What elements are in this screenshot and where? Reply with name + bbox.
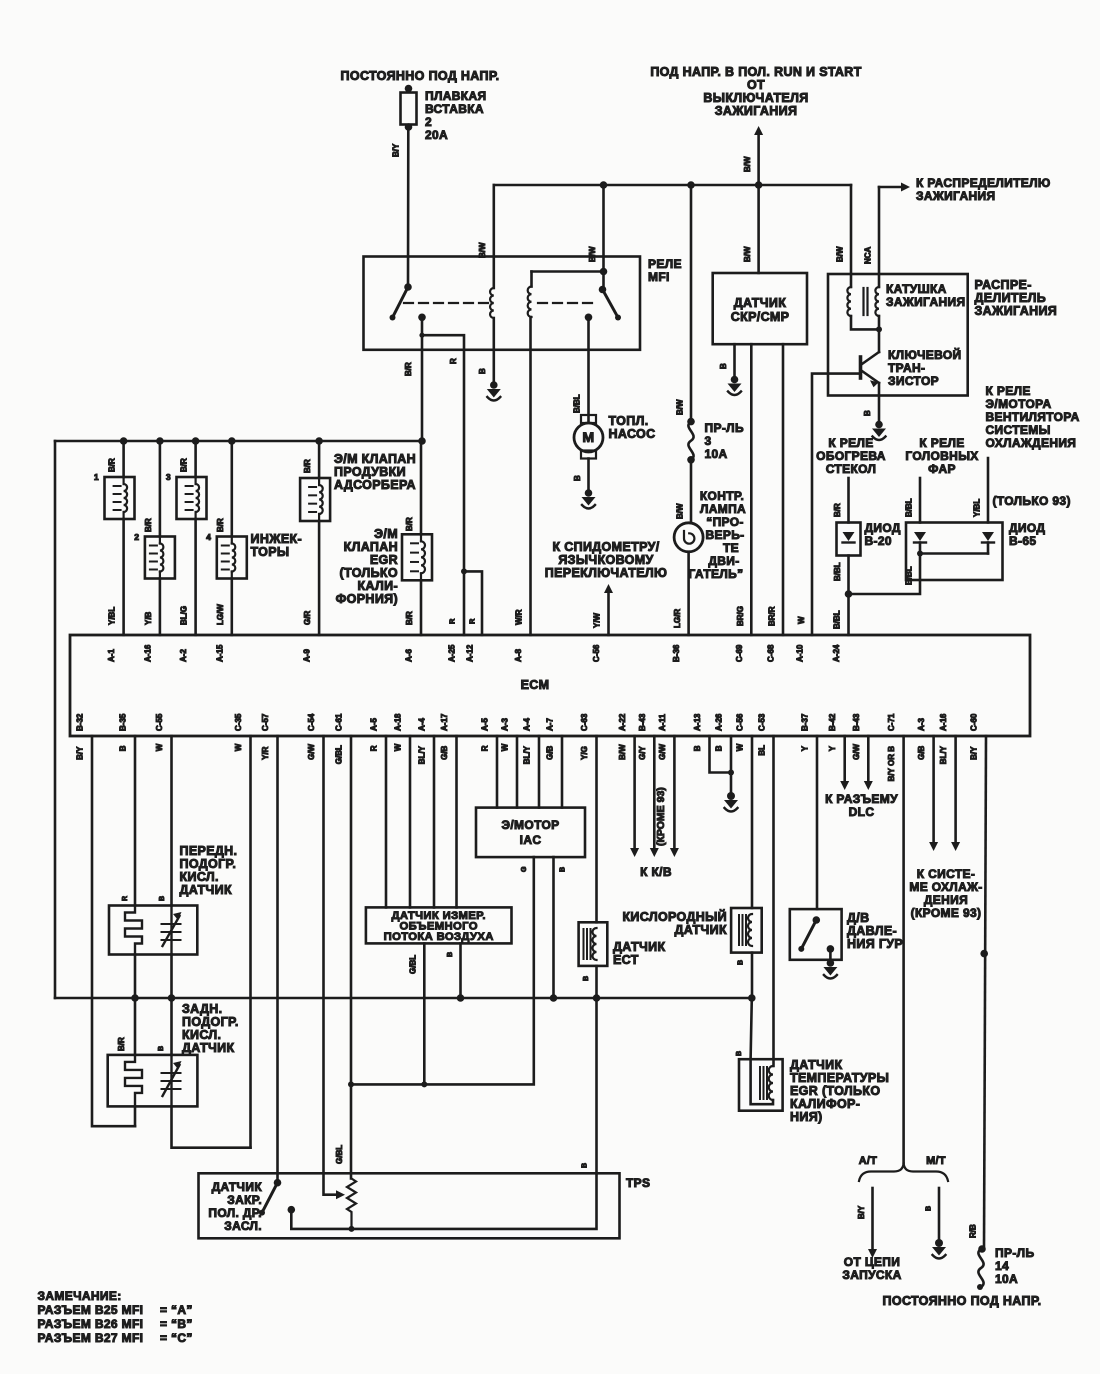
svg-text:A-17: A-17: [440, 713, 449, 731]
svg-text:B/R: B/R: [404, 362, 413, 376]
relay mechanical link (dashed): [404, 302, 488, 304]
svg-text:ОТ: ОТ: [747, 78, 765, 92]
wire bus to TPS return: [595, 998, 598, 1173]
svg-text:A-1: A-1: [107, 649, 116, 662]
injector 4: [231, 441, 234, 537]
wire B/Y to start circuit (ОТ ЦЕПИ ЗАПУСКА): [871, 1188, 874, 1249]
svg-text:ВСТАВКА: ВСТАВКА: [425, 102, 484, 116]
svg-text:A-25: A-25: [448, 644, 457, 662]
wire coil1 to ground: [492, 318, 495, 382]
svg-text:ДАВЛЕ-: ДАВЛЕ-: [847, 924, 897, 938]
svg-text:Y/B: Y/B: [144, 611, 153, 625]
svg-text:ФОРНИЯ): ФОРНИЯ): [336, 592, 398, 606]
svg-text:B/BL: B/BL: [905, 498, 914, 517]
svg-text:A-16: A-16: [939, 713, 948, 731]
svg-text:ТРАН-: ТРАН-: [888, 361, 925, 375]
svg-text:B-35: B-35: [119, 713, 128, 731]
svg-text:A-3: A-3: [501, 718, 510, 731]
svg-text:ОБОГРЕВА: ОБОГРЕВА: [816, 449, 886, 463]
svg-text:ПОТОКА ВОЗДУХА: ПОТОКА ВОЗДУХА: [384, 931, 494, 943]
svg-text:B/BL: B/BL: [905, 566, 914, 585]
svg-text:К РАСПРЕДЕЛИТЕЛЮ: К РАСПРЕДЕЛИТЕЛЮ: [916, 176, 1051, 190]
svg-text:К СПИДОМЕТРУ/: К СПИДОМЕТРУ/: [552, 540, 659, 554]
svg-text:ТЕМПЕРАТУРЫ: ТЕМПЕРАТУРЫ: [790, 1071, 889, 1085]
svg-text:B: B: [719, 363, 728, 369]
wire transistor emitter to ground: [878, 383, 881, 421]
svg-text:ЗАЖИГАНИЯ: ЗАЖИГАНИЯ: [886, 295, 965, 309]
injector 1: [122, 441, 125, 477]
svg-text:BR/R: BR/R: [768, 606, 777, 626]
svg-text:W: W: [797, 616, 806, 624]
svg-text:C-69: C-69: [735, 644, 744, 662]
node bus/lamp-branch: [687, 181, 695, 189]
check engine lamp (КОНТР. ЛАМПА): [674, 523, 703, 552]
svg-text:B/Y OR B: B/Y OR B: [887, 746, 896, 782]
injector 3: [194, 441, 197, 477]
svg-text:3: 3: [705, 434, 712, 448]
svg-text:B: B: [863, 410, 872, 416]
svg-text:Y/W: Y/W: [593, 612, 602, 628]
svg-text:“ПРО-: “ПРО-: [706, 515, 744, 529]
svg-text:ДИОД: ДИОД: [1009, 521, 1045, 535]
diode B-65 (dual): [906, 523, 1003, 581]
svg-text:К РЕЛЕ: К РЕЛЕ: [828, 436, 873, 450]
svg-text:NCA: NCA: [864, 246, 873, 264]
svg-text:ДЕЛИТЕЛЬ: ДЕЛИТЕЛЬ: [975, 291, 1047, 305]
svg-text:(ТОЛЬКО: (ТОЛЬКО: [340, 566, 398, 580]
svg-text:К К/В: К К/В: [640, 865, 672, 879]
fuse 'ПЛАВКАЯ ВСТАВКА 2 20A' (fusible link 2): [405, 85, 413, 93]
svg-text:3: 3: [166, 472, 171, 482]
svg-text:ДАТЧИК: ДАТЧИК: [613, 940, 665, 954]
svg-text:BL/G: BL/G: [180, 606, 189, 625]
wire up-arrow to ignition switch: [757, 134, 760, 185]
svg-text:B/W: B/W: [618, 744, 627, 760]
svg-text:B: B: [159, 896, 166, 901]
svg-text:B-43: B-43: [638, 713, 647, 731]
svg-text:B/R: B/R: [216, 518, 225, 532]
svg-text:Э/М КЛАПАН: Э/М КЛАПАН: [334, 452, 416, 466]
svg-text:ПЕРЕДН.: ПЕРЕДН.: [180, 844, 238, 858]
svg-text:2: 2: [425, 115, 432, 129]
transistor Q1 (КЛЮЧЕВОЙ ТРАНЗИСТОР): [878, 329, 881, 352]
svg-text:A-12: A-12: [466, 644, 475, 662]
wire B/Y fuse to relay switch 1: [407, 127, 410, 287]
wire W/R coil2 to ECM pin A-8: [529, 317, 532, 635]
svg-text:ТЕ: ТЕ: [723, 541, 739, 555]
wire LG/W injector4 to ECM A-15: [231, 579, 234, 636]
svg-text:W: W: [501, 743, 510, 751]
wire R branch to ECM A-25/A-12: [422, 335, 464, 571]
svg-text:20А: 20А: [425, 128, 448, 142]
svg-text:М/Т: М/Т: [926, 1155, 946, 1167]
svg-text:C-53: C-53: [758, 713, 767, 731]
svg-text:Э/М: Э/М: [374, 527, 398, 541]
wire rear O2 sensor to ECM C-35: [172, 1106, 251, 1147]
svg-text:НАСОС: НАСОС: [609, 427, 656, 441]
svg-text:G/B: G/B: [917, 745, 926, 759]
svg-text:ЗАМЕЧАНИЕ:: ЗАМЕЧАНИЕ:: [38, 1289, 122, 1303]
svg-text:EGR (ТОЛЬКО: EGR (ТОЛЬКО: [790, 1084, 880, 1098]
wire Y/BL to diode B-65 right: [987, 458, 990, 523]
svg-text:РАСПРЕ-: РАСПРЕ-: [975, 278, 1032, 292]
svg-text:(КРОМЕ 93): (КРОМЕ 93): [911, 906, 982, 920]
node pot/rail junction: [349, 1226, 355, 1232]
svg-text:R: R: [481, 745, 490, 751]
wire W ECM C-56 through O2 sensor: [751, 736, 754, 908]
svg-text:К РЕЛЕ: К РЕЛЕ: [919, 436, 964, 450]
wire Y/G ECM C-63 through ECT sensor: [595, 736, 598, 922]
svg-text:B/R: B/R: [144, 518, 153, 532]
wire B/W to ignition coil primary: [850, 185, 853, 287]
svg-text:R/B: R/B: [969, 1224, 978, 1238]
wire BL ECM C-53 to EGR temp sensor: [772, 736, 775, 1066]
svg-text:ОТ ЦЕПИ: ОТ ЦЕПИ: [844, 1255, 900, 1269]
svg-text:C-68: C-68: [767, 644, 776, 662]
ground bus (lower): [55, 997, 752, 1000]
svg-text:ДАТЧИК: ДАТЧИК: [180, 883, 232, 897]
svg-text:LG/W: LG/W: [216, 604, 225, 625]
svg-text:ВЕНТИЛЯТОРА: ВЕНТИЛЯТОРА: [986, 410, 1080, 424]
wire BL/G injector3 to ECM A-2: [194, 519, 197, 635]
svg-text:Y/BL: Y/BL: [973, 499, 982, 517]
svg-text:BR/G: BR/G: [736, 606, 745, 626]
wire G/BL ECM C-61 to TPS potentiometer: [350, 736, 353, 1179]
left ground rail: [54, 441, 57, 998]
svg-text:2: 2: [134, 532, 139, 542]
wire G/R purge sol to ECM A-9: [318, 521, 321, 635]
relay MFI box: [364, 257, 641, 350]
svg-text:C-71: C-71: [887, 713, 896, 731]
svg-text:B/BL: B/BL: [833, 610, 842, 629]
svg-text:A-4: A-4: [418, 718, 427, 731]
front O2 heater element: [125, 906, 142, 955]
wire front O2 sensor to ground bus: [170, 955, 173, 999]
svg-text:ДАТЧИК: ДАТЧИК: [734, 296, 786, 310]
svg-text:4: 4: [206, 532, 211, 542]
svg-text:LG/R: LG/R: [673, 609, 682, 628]
svg-text:ЗАПУСКА: ЗАПУСКА: [842, 1268, 901, 1282]
TPS potentiometer: [347, 1179, 356, 1229]
svg-text:B: B: [583, 976, 590, 981]
svg-text:R: R: [468, 618, 477, 624]
svg-text:КАТУШКА: КАТУШКА: [886, 282, 947, 296]
svg-text:КАЛИФОР-: КАЛИФОР-: [790, 1097, 860, 1111]
svg-text:ПОСТОЯННО ПОД НАПР.: ПОСТОЯННО ПОД НАПР.: [883, 1294, 1042, 1308]
svg-text:G/W: G/W: [852, 743, 861, 759]
node bus right end / O2-EGRt: [748, 994, 756, 1002]
wire W ECM C-35 down: [249, 736, 252, 1148]
svg-text:АДСОРБЕРА: АДСОРБЕРА: [334, 478, 416, 492]
svg-text:C-35: C-35: [234, 713, 243, 731]
MAF sensor box (ДАТЧИК ИЗМЕР. ОБЪЕМНОГО ПОТОКА ВОЗДУХА): [366, 907, 512, 943]
svg-text:B/R: B/R: [405, 517, 414, 531]
svg-text:РАЗЪЕМ В25 MFI: РАЗЪЕМ В25 MFI: [38, 1303, 144, 1317]
wire BR/G CKP to ECM C-69: [750, 344, 753, 635]
svg-text:10А: 10А: [995, 1272, 1018, 1286]
svg-text:ДВИ-: ДВИ-: [708, 554, 739, 568]
svg-text:B-36: B-36: [672, 644, 681, 662]
svg-text:DLC: DLC: [849, 805, 875, 819]
svg-text:B/R: B/R: [108, 458, 117, 472]
svg-text:BL: BL: [758, 745, 767, 756]
svg-text:ПР-ЛЬ: ПР-ЛЬ: [995, 1246, 1034, 1260]
fuse ПР-ЛЬ 3 10A: [690, 185, 693, 422]
svg-text:R: R: [449, 358, 458, 364]
svg-text:ДАТЧИК: ДАТЧИК: [182, 1041, 234, 1055]
svg-text:B: B: [582, 1163, 589, 1168]
svg-text:B/R: B/R: [833, 503, 842, 517]
node bus/front-sensor: [168, 994, 176, 1002]
svg-text:Э/МОТОРА: Э/МОТОРА: [986, 397, 1052, 411]
svg-text:A-24: A-24: [832, 644, 841, 662]
svg-text:ПОЛ. ДР.: ПОЛ. ДР.: [208, 1206, 262, 1220]
power steering pressure switch (Д/В ДАВЛЕНИЯ ГУР): [790, 909, 842, 960]
svg-text:A-5: A-5: [481, 718, 490, 731]
svg-text:КАЛИ-: КАЛИ-: [358, 579, 398, 593]
svg-text:C-56: C-56: [592, 644, 601, 662]
wire coil2 feed from B/W line: [532, 270, 604, 273]
svg-text:B/R: B/R: [405, 611, 414, 625]
IAC motor box (Э/МОТОР IAC): [476, 808, 585, 858]
svg-text:W: W: [234, 743, 243, 751]
svg-text:(ТОЛЬКО 93): (ТОЛЬКО 93): [993, 494, 1071, 508]
svg-text:C-55: C-55: [155, 713, 164, 731]
svg-text:A-11: A-11: [658, 714, 667, 731]
node bus injector1: [120, 437, 128, 445]
wire B (M/T) to ground: [938, 1188, 941, 1240]
svg-text:B: B: [715, 745, 724, 751]
svg-text:B-37: B-37: [801, 713, 810, 731]
wire Y ECM B-37 to PS pressure switch: [816, 736, 819, 909]
ECM box: [70, 635, 1030, 736]
svg-text:B/Y: B/Y: [76, 746, 85, 760]
relay coil 1: [492, 185, 495, 288]
svg-text:В-20: В-20: [865, 534, 892, 548]
svg-text:G/R: G/R: [303, 611, 312, 625]
wire B bus to rear O2 sensor: [170, 998, 173, 1055]
svg-text:W: W: [394, 743, 403, 751]
svg-text:ПЛАВКАЯ: ПЛАВКАЯ: [425, 89, 486, 103]
svg-text:ДАТЧИК: ДАТЧИК: [675, 923, 727, 937]
svg-text:ПОДОГР.: ПОДОГР.: [182, 1015, 239, 1029]
wire B/R bus to rear O2 heater: [134, 998, 137, 1055]
svg-text:ДАТЧИК: ДАТЧИК: [212, 1180, 263, 1194]
svg-text:Д/В: Д/В: [847, 911, 869, 925]
svg-text:A-9: A-9: [303, 649, 312, 662]
relay switch 2: [602, 185, 605, 290]
svg-text:B: B: [736, 1051, 743, 1056]
svg-text:ЗАКР.: ЗАКР.: [227, 1193, 262, 1207]
svg-text:КИСЛ.: КИСЛ.: [182, 1028, 221, 1042]
svg-text:B/Y: B/Y: [857, 1205, 866, 1219]
svg-text:ПР-ЛЬ: ПР-ЛЬ: [705, 421, 744, 435]
svg-text:A-22: A-22: [618, 713, 627, 731]
EGR temperature sensor box: [739, 1059, 783, 1111]
wire B/BL relay to fuel pump: [587, 317, 590, 422]
injector 2: [159, 441, 162, 537]
svg-text:R: R: [448, 618, 457, 624]
ground below relay coil 1: [490, 381, 498, 389]
wire bus to EGR temp sensor return: [751, 998, 752, 1059]
node bus/coil2-feed: [600, 181, 608, 189]
svg-text:B-32: B-32: [76, 713, 85, 731]
node coil output junction: [876, 326, 882, 332]
svg-text:A-16: A-16: [143, 644, 152, 662]
svg-text:К РЕЛЕ: К РЕЛЕ: [986, 384, 1031, 398]
wire ECT to ground bus: [595, 966, 598, 998]
wire Y/BL injector1 to ECM A-1: [122, 519, 125, 635]
node A-25/A-12 bracket: [461, 568, 467, 574]
svg-text:C-60: C-60: [970, 713, 979, 731]
wire B/W bus to CKP/CMP: [757, 185, 760, 273]
svg-text:Y/R: Y/R: [261, 746, 270, 760]
rear O2 heater element: [125, 1055, 142, 1104]
svg-text:B: B: [693, 745, 702, 751]
svg-text:ВЫКЛЮЧАТЕЛЯ: ВЫКЛЮЧАТЕЛЯ: [703, 91, 808, 105]
svg-text:НИЯ ГУР: НИЯ ГУР: [847, 937, 903, 951]
svg-text:W: W: [736, 743, 745, 751]
svg-text:BL/Y: BL/Y: [939, 745, 948, 764]
svg-text:B: B: [478, 368, 487, 374]
svg-text:ДИОД: ДИОД: [865, 521, 901, 535]
svg-text:BL/Y: BL/Y: [418, 745, 427, 764]
svg-text:B/R: B/R: [117, 1037, 126, 1051]
svg-text:B/W: B/W: [836, 246, 845, 262]
svg-text:КИСЛОРОДНЫЙ: КИСЛОРОДНЫЙ: [622, 909, 727, 924]
brace: [859, 1162, 948, 1181]
svg-text:= “А”: = “А”: [160, 1303, 193, 1317]
svg-text:B/Y: B/Y: [970, 746, 979, 760]
svg-text:КЛЮЧЕВОЙ: КЛЮЧЕВОЙ: [888, 347, 962, 362]
wire front O2 heater to ground bus: [134, 955, 137, 999]
svg-text:B: B: [738, 960, 745, 965]
ground below PS switch: [827, 959, 835, 967]
svg-text:К РАЗЪЕМУ: К РАЗЪЕМУ: [825, 792, 898, 806]
svg-text:В-65: В-65: [1009, 534, 1036, 548]
svg-text:R: R: [122, 896, 129, 901]
wire CKP/CMP to ground: [733, 344, 736, 376]
svg-text:ЗАЖИГАНИЯ: ЗАЖИГАНИЯ: [975, 304, 1058, 318]
wire B/Y ECM B-32 to rear O2 heater return: [92, 736, 135, 1126]
svg-text:B: B: [119, 745, 128, 751]
svg-text:(КРОМЕ 93): (КРОМЕ 93): [655, 787, 667, 846]
fuse ПР-ЛЬ 14 10A: [978, 1245, 986, 1253]
wire B/R relay to solenoid bus: [421, 317, 424, 441]
solenoid supply bus (B/R): [55, 440, 422, 443]
rear O2 sensor element: [170, 1055, 172, 1107]
wires to A/C (К К/В) with down arrows: [633, 736, 636, 848]
svg-text:C-63: C-63: [580, 713, 589, 731]
svg-text:ИНЖЕК-: ИНЖЕК-: [251, 532, 303, 546]
svg-text:ЗАСЛ.: ЗАСЛ.: [224, 1219, 262, 1233]
wire B/R to diode B-20: [847, 478, 850, 523]
rear heated O2 sensor box: [108, 1055, 198, 1107]
svg-text:СТЕКОЛ: СТЕКОЛ: [826, 462, 877, 476]
svg-text:КЛАПАН: КЛАПАН: [344, 540, 398, 554]
svg-text:A-26: A-26: [715, 713, 724, 731]
relay coil 2: [530, 272, 533, 287]
svg-text:А/Т: А/Т: [859, 1155, 878, 1167]
svg-text:ГОЛОВНЫХ: ГОЛОВНЫХ: [905, 449, 978, 463]
svg-text:Э/МОТОР: Э/МОТОР: [501, 818, 559, 832]
svg-text:G/B: G/B: [440, 745, 449, 759]
wire arrow to ignition distributor: [879, 186, 901, 189]
wire O2 sensor to ground bus: [751, 953, 754, 998]
svg-text:G/W: G/W: [658, 743, 667, 759]
svg-text:ПОД НАПР. В ПОЛ. RUN И START: ПОД НАПР. В ПОЛ. RUN И START: [650, 65, 861, 79]
svg-text:MFI: MFI: [648, 270, 670, 284]
node bus injector4: [228, 437, 236, 445]
svg-text:М: М: [582, 430, 594, 446]
wire B ECM B-35 to front O2 heater: [134, 736, 137, 906]
wire B/Y ECM C-60 to fuse ПР-ЛЬ 14: [984, 736, 986, 1249]
svg-text:Y/BL: Y/BL: [108, 607, 117, 625]
node MAF-G/BL junction: [421, 1081, 427, 1087]
relay switch 2 output node: [585, 314, 593, 322]
svg-text:КИСЛ.: КИСЛ.: [180, 870, 219, 884]
svg-text:IAC: IAC: [520, 833, 542, 847]
svg-text:МЕ ОХЛАЖ-: МЕ ОХЛАЖ-: [909, 880, 982, 894]
wire NCA from distributor arrow to coil secondary: [878, 187, 881, 287]
svg-text:R: R: [370, 745, 379, 751]
diode B-20: [837, 523, 861, 556]
svg-text:B/R: B/R: [180, 458, 189, 472]
svg-text:РАЗЪЕМ В26 MFI: РАЗЪЕМ В26 MFI: [38, 1317, 144, 1331]
svg-text:ЛАМПА: ЛАМПА: [700, 502, 746, 516]
wire B/BL to diode B-65 left: [919, 478, 922, 523]
svg-text:Y: Y: [828, 745, 837, 751]
wire B/BL diode B-65 to junction: [849, 554, 921, 595]
ground below M/T wire: [935, 1239, 943, 1247]
svg-text:НИЯ): НИЯ): [790, 1110, 823, 1124]
svg-text:EGR: EGR: [370, 553, 398, 567]
wire G/BL MAF to IAC-G junction: [423, 943, 426, 1084]
svg-text:A-2: A-2: [179, 649, 188, 662]
svg-text:B/W: B/W: [478, 242, 487, 258]
node junction to R branch: [419, 333, 424, 338]
ground below A-26: [727, 792, 735, 800]
svg-text:ЗАЖИГАНИЯ: ЗАЖИГАНИЯ: [916, 189, 995, 203]
svg-text:Y: Y: [801, 745, 810, 751]
svg-text:B/W: B/W: [743, 156, 752, 172]
svg-text:A-5: A-5: [370, 718, 379, 731]
wire rear O2 heater to B/Y return: [134, 1106, 137, 1126]
wire Y/B injector2 to ECM A-16: [159, 579, 162, 636]
svg-text:ЗАДН.: ЗАДН.: [182, 1002, 222, 1016]
svg-text:= “В”: = “В”: [160, 1317, 193, 1331]
node bus/IAC-B: [550, 994, 558, 1002]
CKP/CMP sensor box: [713, 273, 807, 344]
fuel pump motor M (ТОПЛ. НАСОС): [581, 415, 596, 423]
svg-text:К СИСТЕ-: К СИСТЕ-: [917, 867, 975, 881]
wire G/W ECM C-54 to TPS wiper: [324, 736, 337, 1195]
svg-text:A-13: A-13: [693, 713, 702, 731]
svg-text:ЕСТ: ЕСТ: [613, 953, 639, 967]
wires to DLC connector with arrows: [843, 736, 846, 781]
svg-text:B-43: B-43: [852, 713, 861, 731]
svg-text:ЯЗЫЧКОВОМУ: ЯЗЫЧКОВОМУ: [558, 553, 653, 567]
svg-text:C-56: C-56: [736, 713, 745, 731]
svg-text:B/R: B/R: [303, 459, 312, 473]
wires B ECM A-13/A-26 to ground: [710, 736, 732, 773]
svg-text:G: G: [521, 866, 528, 872]
svg-text:СИСТЕМЫ: СИСТЕМЫ: [986, 423, 1051, 437]
ground below transistor: [875, 421, 883, 429]
wire W ECM C-55 to front O2 sensor: [170, 736, 173, 906]
svg-text:РАЗЪЕМ В27 MFI: РАЗЪЕМ В27 MFI: [38, 1331, 144, 1345]
svg-text:B-42: B-42: [828, 713, 837, 731]
